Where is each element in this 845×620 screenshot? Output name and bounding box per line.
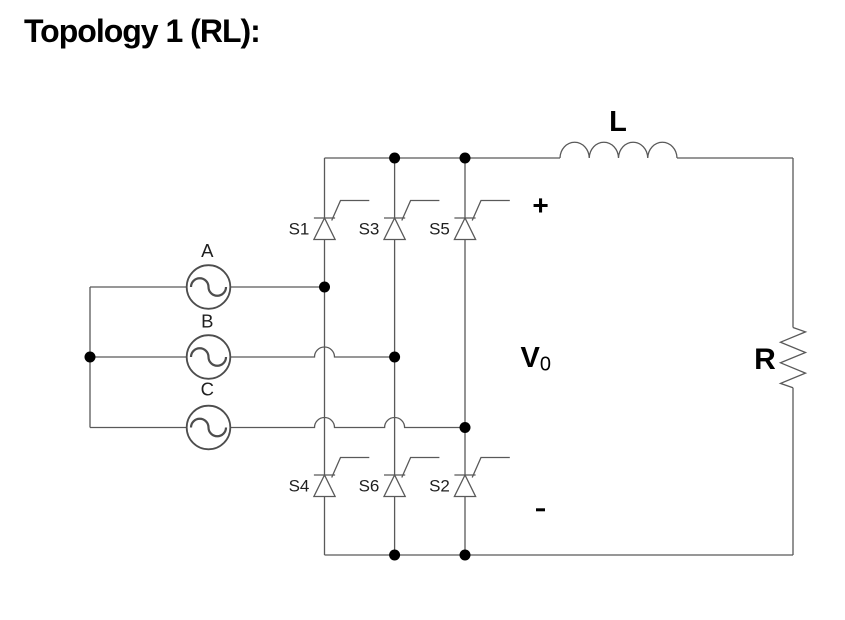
thyristor S3 xyxy=(384,201,439,240)
svg-text:S4: S4 xyxy=(289,477,310,496)
svg-text:R: R xyxy=(754,343,776,376)
junction dot top rail leg3 xyxy=(460,153,471,164)
wire: right rail lower xyxy=(792,388,794,555)
svg-text:+: + xyxy=(532,190,548,221)
wire: leg1 top xyxy=(324,158,326,218)
AC source B xyxy=(187,335,231,379)
svg-text:S2: S2 xyxy=(429,477,450,496)
wire: right rail upper xyxy=(792,158,794,328)
svg-text:S1: S1 xyxy=(289,220,310,239)
wire: leg1 middle xyxy=(324,240,326,476)
wire: bottom rail xyxy=(325,554,794,556)
svg-text:A: A xyxy=(201,240,214,261)
wire: top rail right segment xyxy=(677,157,793,159)
wire: phase B with hop over leg1 xyxy=(231,347,395,357)
wire: phase A right segment xyxy=(231,286,325,288)
junction dot top rail leg2 xyxy=(389,153,400,164)
svg-text:S3: S3 xyxy=(359,220,380,239)
junction dot phase B / leg2 xyxy=(389,352,400,363)
junction dot bottom rail leg3 xyxy=(460,550,471,561)
wire: leg3 top xyxy=(464,158,466,218)
AC source A xyxy=(187,265,231,309)
wire: phase C with hops over leg1 and leg2 xyxy=(231,418,466,428)
svg-text:B: B xyxy=(201,311,213,332)
thyristor S5 xyxy=(454,201,509,240)
thyristor S1 xyxy=(314,201,369,240)
svg-text:S5: S5 xyxy=(429,220,450,239)
junction dot phase C / leg3 xyxy=(460,422,471,433)
wire: phase C left segment xyxy=(90,427,187,429)
wire: phase A left segment xyxy=(90,286,187,288)
wire: leg2 top xyxy=(394,158,396,218)
resistor R xyxy=(781,328,806,388)
thyristor S2 xyxy=(454,458,509,497)
wire: leg3 bottom xyxy=(464,497,466,556)
wire: leg2 bottom xyxy=(394,497,396,556)
label minus xyxy=(536,508,545,511)
svg-text:Topology 1 (RL):: Topology 1 (RL): xyxy=(24,13,260,49)
junction dot left rail xyxy=(85,352,96,363)
svg-text:S6: S6 xyxy=(359,477,380,496)
svg-text:C: C xyxy=(201,379,214,400)
wire: leg1 bottom xyxy=(324,497,326,556)
wire: leg2 middle xyxy=(394,240,396,476)
AC source C xyxy=(187,406,231,450)
wire: phase B left segment xyxy=(90,356,187,358)
wire: top rail left segment xyxy=(325,157,561,159)
inductor L1 xyxy=(560,142,677,158)
svg-text:L: L xyxy=(609,106,627,138)
wire: left vertical xyxy=(89,287,91,428)
junction dot phase A / leg1 xyxy=(319,282,330,293)
thyristor S6 xyxy=(384,458,439,497)
thyristor S4 xyxy=(314,458,369,497)
wire: leg3 middle xyxy=(464,240,466,476)
junction dot bottom rail leg2 xyxy=(389,550,400,561)
